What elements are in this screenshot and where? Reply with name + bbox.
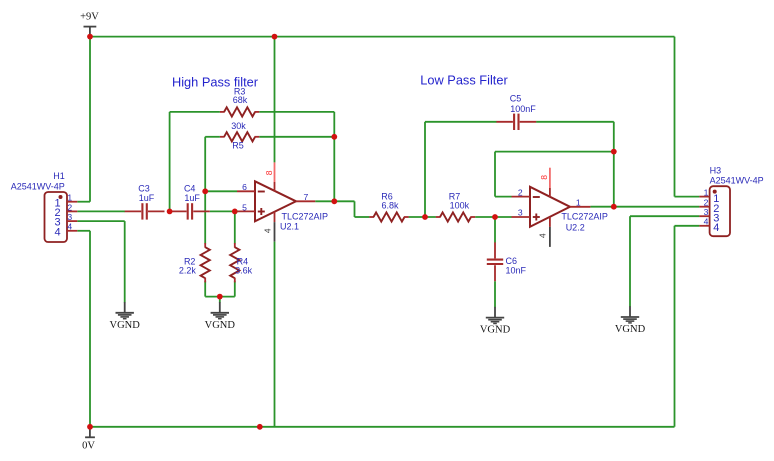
wire R6 to R7 xyxy=(409,216,436,218)
wire left +9V drop to H1 pin1 xyxy=(77,37,90,202)
connector H1 A2541WV-4P xyxy=(11,171,78,242)
node R7/C6/pin3 junction xyxy=(492,214,498,220)
op-amp U2.2 TLC272AIP xyxy=(512,168,608,247)
wire H1 pin3 to VGND xyxy=(77,221,124,303)
svg-text:2.2k: 2.2k xyxy=(179,266,197,276)
wire R7 to noninverting input U2.2 xyxy=(475,216,511,218)
wire U2.1 output to R6 xyxy=(315,201,369,217)
resistor R2 2.2k xyxy=(179,243,210,282)
power +9V xyxy=(80,11,99,36)
op-amp U2.1 TLC272AIP xyxy=(237,162,328,241)
svg-text:VGND: VGND xyxy=(110,320,141,331)
resistor R3 68k xyxy=(220,87,259,117)
wire C6 top xyxy=(494,217,496,243)
svg-text:H3: H3 xyxy=(710,165,722,175)
svg-text:VGND: VGND xyxy=(615,324,646,335)
node +9V left junction xyxy=(87,34,93,40)
ground VGND (H3 pin3) xyxy=(615,306,646,335)
wire inverting input U2.1 xyxy=(205,190,237,192)
node U2.2 output junction xyxy=(611,204,617,210)
node R6/R7/C5 junction xyxy=(422,214,428,220)
resistor R5 30k xyxy=(220,121,259,150)
node feedback junction xyxy=(611,149,617,155)
svg-text:30k: 30k xyxy=(231,121,246,131)
svg-text:VGND: VGND xyxy=(205,320,236,331)
wire noninverting input U2.1 xyxy=(210,210,238,212)
svg-text:1: 1 xyxy=(576,198,581,208)
wire U2.2 feedback to inverting input xyxy=(495,152,614,197)
wire right riser 0V to H3 pin4 xyxy=(675,226,700,427)
svg-text:4: 4 xyxy=(263,228,273,233)
wire U2.1 pin8 to +9V rail xyxy=(274,37,276,163)
svg-text:R5: R5 xyxy=(232,141,244,151)
svg-text:1uF: 1uF xyxy=(139,193,155,203)
wire C6 bottom to VGND xyxy=(494,281,496,307)
svg-text:C4: C4 xyxy=(184,184,196,194)
svg-text:1: 1 xyxy=(704,187,709,197)
capacitor C3 1uF xyxy=(125,184,165,220)
svg-text:2: 2 xyxy=(518,188,523,198)
wire R3 right to output node xyxy=(259,112,334,201)
wire U2.1 pin4 to 0V rail xyxy=(274,242,276,427)
svg-text:TLC272AIP: TLC272AIP xyxy=(561,212,608,222)
svg-text:4: 4 xyxy=(704,217,709,227)
svg-text:1: 1 xyxy=(67,193,72,203)
ground VGND (R2/R4) xyxy=(205,302,236,331)
power 0V xyxy=(82,427,95,452)
wire R4 top xyxy=(234,211,236,243)
node R5 right junction xyxy=(331,134,337,140)
svg-text:U2.2: U2.2 xyxy=(566,222,585,232)
svg-text:3: 3 xyxy=(67,212,72,222)
svg-text:0V: 0V xyxy=(82,440,95,451)
node U2.1 pin8 top junction xyxy=(272,34,278,40)
wire +9V top rail xyxy=(90,36,675,38)
node R2/R4 VGND junction xyxy=(217,294,223,300)
svg-text:1uF: 1uF xyxy=(184,193,200,203)
wire C5 left riser xyxy=(424,122,426,217)
node C3/C4 junction xyxy=(167,209,173,215)
svg-text:+9V: +9V xyxy=(80,11,99,22)
svg-text:100nF: 100nF xyxy=(510,104,536,114)
svg-text:4: 4 xyxy=(55,226,61,238)
svg-text:3: 3 xyxy=(518,208,523,218)
svg-text:Low Pass Filter: Low Pass Filter xyxy=(420,72,508,87)
capacitor C4 1uF xyxy=(170,184,210,220)
svg-text:U2.1: U2.1 xyxy=(280,222,299,232)
capacitor C6 10nF xyxy=(487,242,527,281)
wire C5 top right and riser to output xyxy=(536,122,614,207)
svg-text:3: 3 xyxy=(704,207,709,217)
wire C5 top left xyxy=(425,121,497,123)
svg-text:8: 8 xyxy=(264,170,274,175)
wire R2 R4 bottoms to VGND xyxy=(205,281,235,303)
svg-text:TLC272AIP: TLC272AIP xyxy=(282,212,329,222)
wire right riser +9V to H3 pin1 xyxy=(675,37,700,197)
connector H3 A2541WV-4P xyxy=(699,165,763,236)
svg-text:VGND: VGND xyxy=(480,325,511,336)
ground VGND (H1 pin3) xyxy=(110,302,141,331)
node R4 junction xyxy=(232,209,238,215)
svg-text:C3: C3 xyxy=(138,184,150,194)
capacitor C5 100nF xyxy=(496,94,536,130)
wire H3 pin3 to VGND xyxy=(630,216,699,307)
svg-text:2: 2 xyxy=(67,202,72,212)
svg-text:A2541WV-4P: A2541WV-4P xyxy=(11,182,65,192)
svg-text:4: 4 xyxy=(713,222,719,234)
svg-text:4: 4 xyxy=(67,222,72,232)
svg-text:3.6k: 3.6k xyxy=(235,266,253,276)
ground VGND (C6) xyxy=(480,307,511,336)
svg-text:68k: 68k xyxy=(233,95,248,105)
wire R5 left to inverting node xyxy=(205,137,220,244)
svg-text:10nF: 10nF xyxy=(506,265,527,275)
wire 0V bottom rail xyxy=(90,426,675,428)
svg-text:6.8k: 6.8k xyxy=(381,201,399,211)
svg-text:7: 7 xyxy=(304,192,309,202)
svg-text:100k: 100k xyxy=(450,201,470,211)
svg-text:High Pass filter: High Pass filter xyxy=(172,75,259,90)
svg-text:8: 8 xyxy=(539,175,549,180)
svg-text:2: 2 xyxy=(704,198,709,208)
resistor R7 100k xyxy=(436,191,475,221)
node inverting input junction xyxy=(202,188,208,194)
svg-text:4: 4 xyxy=(538,233,548,238)
wire H1 pin4 to 0V rail xyxy=(77,231,90,427)
node 0V rail junction xyxy=(257,424,263,430)
svg-text:H1: H1 xyxy=(53,171,65,181)
resistor R4 3.6k xyxy=(230,243,252,282)
svg-text:6: 6 xyxy=(242,182,247,192)
node U2.1 output junction xyxy=(331,198,337,204)
svg-text:5: 5 xyxy=(242,202,247,212)
wire R5 right xyxy=(259,136,334,138)
wire H1 pin2 to C3 xyxy=(77,210,125,212)
resistor R6 6.8k xyxy=(369,191,408,221)
svg-text:C5: C5 xyxy=(510,94,522,104)
wire R3 left to C3/C4 node xyxy=(170,112,220,211)
wire U2.2 output to H3 pin2 xyxy=(590,206,699,208)
node 0V left junction xyxy=(87,424,93,430)
svg-text:A2541WV-4P: A2541WV-4P xyxy=(710,176,764,186)
